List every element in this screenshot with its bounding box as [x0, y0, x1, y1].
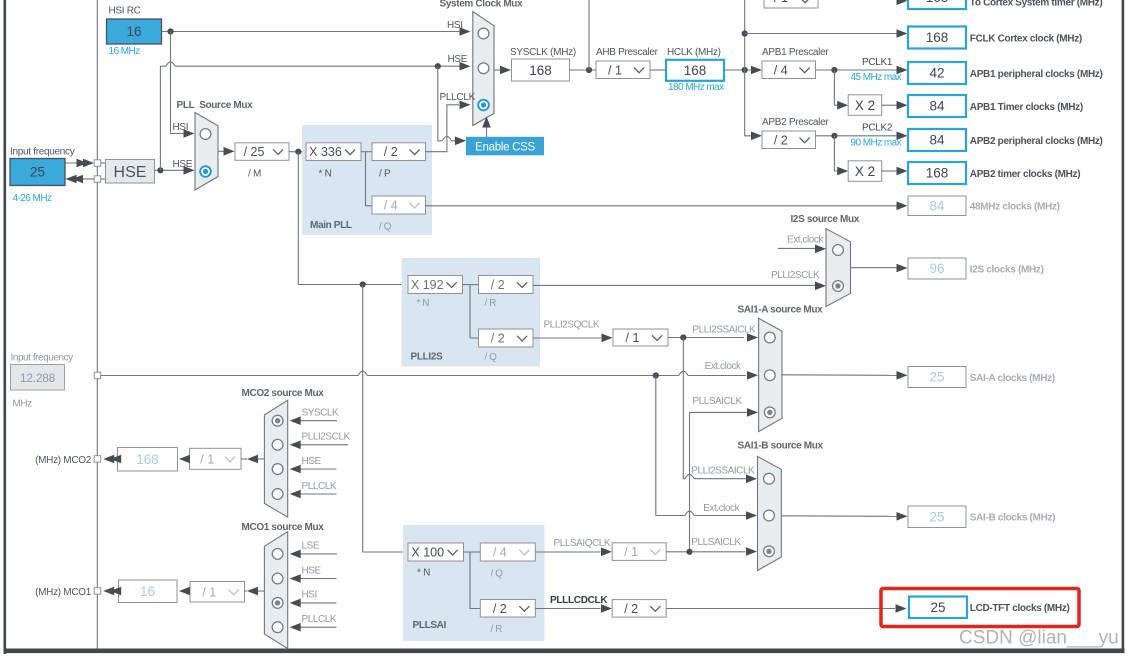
svg-text:168: 168 — [684, 63, 707, 78]
value 48MHz clocks — [908, 196, 966, 216]
frame borders — [4, 0, 7, 654]
svg-text:84: 84 — [929, 133, 945, 148]
svg-text:/ 2: / 2 — [491, 278, 505, 292]
svg-text:X 336: X 336 — [309, 145, 342, 159]
divider PLLSAI /Q — [480, 543, 535, 561]
svg-text:LCD-TFT clocks (MHz): LCD-TFT clocks (MHz) — [970, 603, 1070, 614]
svg-text:/ 1: / 1 — [200, 452, 214, 466]
svg-text:12.288: 12.288 — [20, 371, 56, 385]
svg-text:16 MHz: 16 MHz — [109, 46, 141, 57]
block PLLI2S — [402, 258, 541, 367]
svg-text:PLLI2SCLK: PLLI2SCLK — [771, 270, 820, 281]
svg-text:PLLLCDCLK: PLLLCDCLK — [550, 595, 608, 606]
svg-text:MCO1 source Mux: MCO1 source Mux — [242, 522, 325, 533]
wire LCD-TFT clocks output — [666, 608, 895, 610]
wire PLLI2SQCLK — [533, 337, 601, 339]
value To Cortex System timer (cut) — [908, 0, 966, 9]
svg-text:(MHz) MCO2: (MHz) MCO2 — [35, 455, 92, 466]
svg-text:Input frequency: Input frequency — [11, 353, 74, 364]
svg-text:SAI1-A source Mux: SAI1-A source Mux — [738, 305, 824, 316]
svg-text:/ 1: / 1 — [608, 63, 622, 77]
svg-text:X 100: X 100 — [411, 546, 444, 560]
svg-text:HSE: HSE — [448, 54, 468, 65]
wire input to HSE pin — [65, 162, 82, 164]
highlight LCD-TFT red box — [881, 589, 1079, 627]
svg-text:PLLCLK: PLLCLK — [302, 614, 337, 625]
divider /Q — [372, 196, 426, 214]
svg-text:CSDN @lian___yu: CSDN @lian___yu — [959, 628, 1119, 649]
svg-text:PLLI2SSAICLK: PLLI2SSAICLK — [691, 466, 755, 477]
svg-text:HSE: HSE — [302, 456, 322, 467]
svg-text:PLLSAIQCLK: PLLSAIQCLK — [554, 538, 611, 549]
svg-text:X 2: X 2 — [855, 98, 875, 113]
wire PLLSAIQCLK — [535, 551, 600, 553]
svg-text:Enable CSS: Enable CSS — [475, 141, 535, 153]
wire SAI-B clocks output — [781, 515, 896, 518]
svg-text:HSI: HSI — [302, 590, 317, 601]
svg-text:PLLI2SQCLK: PLLI2SQCLK — [544, 320, 600, 331]
svg-text:* N: * N — [319, 169, 332, 180]
svg-text:/ M: / M — [248, 169, 261, 180]
svg-text:SAI-A clocks (MHz): SAI-A clocks (MHz) — [970, 373, 1055, 384]
svg-text:42: 42 — [929, 66, 944, 81]
svg-text:HCLK (MHz): HCLK (MHz) — [667, 47, 721, 58]
wire HSE up to System Clock Mux — [160, 66, 166, 170]
svg-text:HSE: HSE — [173, 159, 193, 170]
svg-text:* N: * N — [417, 298, 430, 309]
multiplier *N — [306, 143, 361, 161]
wire MCO2 output — [258, 458, 265, 460]
svg-text:System Clock Mux: System Clock Mux — [440, 0, 524, 10]
divider PLLSAI /R — [480, 600, 535, 618]
svg-text:/ R: / R — [485, 298, 497, 309]
block PLLSAI — [403, 525, 545, 641]
svg-text:APB2 Prescaler: APB2 Prescaler — [762, 117, 829, 128]
value I2S clocks — [908, 258, 966, 279]
svg-text:/ P: / P — [379, 169, 391, 180]
svg-text:PCLK2: PCLK2 — [862, 123, 893, 134]
divider MCO2 div — [190, 448, 242, 469]
wire HSI down to PLL Source Mux — [171, 32, 185, 134]
svg-text:96: 96 — [929, 261, 944, 276]
svg-text:/ 2: / 2 — [774, 133, 788, 147]
svg-text:Main PLL: Main PLL — [310, 220, 352, 231]
svg-text:/ Q: / Q — [379, 222, 392, 233]
svg-text:/ Q: / Q — [491, 569, 504, 580]
divider PLLI2S /R — [479, 276, 534, 294]
wire PLLCLK P output to System Clock Mux — [426, 105, 460, 152]
button Enable CSS — [466, 137, 544, 156]
svg-text:APB2 peripheral clocks (MHz): APB2 peripheral clocks (MHz) — [970, 136, 1103, 147]
divider /P — [372, 143, 426, 161]
svg-text:168: 168 — [926, 30, 949, 45]
wire Ext.clock down to SAI1-B — [656, 376, 685, 516]
svg-text:25: 25 — [930, 600, 945, 615]
oscillator HSE — [106, 160, 155, 184]
svg-text:I2S source Mux: I2S source Mux — [791, 214, 860, 225]
svg-text:PLLSAI: PLLSAI — [413, 620, 447, 631]
svg-text:PLLI2SCLK: PLLI2SCLK — [302, 432, 351, 443]
svg-text:25: 25 — [929, 509, 944, 524]
svg-text:168: 168 — [136, 452, 159, 467]
svg-text:4-26 MHz: 4-26 MHz — [13, 193, 52, 204]
multiplier PLLI2S *N — [408, 276, 463, 294]
svg-text:APB1 Prescaler: APB1 Prescaler — [762, 47, 829, 58]
value LCD-TFT clocks — [909, 597, 967, 619]
wire PLL input rail down to PLLI2S and PLLSAI — [298, 152, 408, 285]
value APB2 timer clocks — [908, 162, 966, 184]
wire: left input rail — [96, 0, 98, 649]
svg-text:X 2: X 2 — [855, 164, 875, 179]
svg-text:/ 2: / 2 — [624, 602, 638, 616]
wire PLLSAICLK to SAI1-B — [666, 551, 745, 553]
svg-text:SAI-B clocks (MHz): SAI-B clocks (MHz) — [970, 513, 1055, 524]
svg-text:/ 2: / 2 — [493, 602, 507, 616]
wire HSE pin back to input — [79, 178, 94, 180]
wire APB2 to X2 — [834, 136, 843, 171]
value APB1 Timer clocks — [908, 95, 966, 117]
svg-text:SYSCLK: SYSCLK — [302, 408, 340, 419]
wire HCLK to APB — [724, 69, 751, 71]
wire SYSCLK output — [494, 69, 500, 71]
divider Cortex prescaler (cut at top) — [764, 0, 818, 8]
svg-text:PLL Source Mux: PLL Source Mux — [177, 100, 254, 111]
svg-text:/ 1: / 1 — [202, 585, 216, 599]
svg-text:16: 16 — [126, 24, 141, 39]
value FCLK Cortex clock — [908, 27, 966, 49]
wire PLLI2SSAICLK down to SAI1-B — [683, 338, 685, 479]
wire PLL mux output to /M — [218, 150, 224, 152]
svg-text:APB2 timer clocks (MHz): APB2 timer clocks (MHz) — [970, 169, 1080, 180]
svg-text:MHz: MHz — [13, 399, 33, 410]
wire I2S clocks output — [851, 267, 897, 269]
multiplier PLLSAI *N — [408, 543, 464, 561]
svg-text:HSE: HSE — [114, 164, 147, 181]
wire HSE to Enable CSS — [438, 66, 443, 141]
svg-text:PLLCLK: PLLCLK — [302, 481, 337, 492]
svg-text:HSI RC: HSI RC — [109, 6, 141, 17]
divider PLLI2S /Q — [479, 329, 534, 347]
svg-text:LSE: LSE — [302, 541, 320, 552]
wire HSI to System Clock Mux — [162, 31, 461, 33]
wire SAI-A clocks output — [782, 374, 897, 377]
svg-text:HSI: HSI — [447, 20, 463, 31]
svg-text:HSE: HSE — [302, 565, 322, 576]
svg-text:84: 84 — [929, 99, 945, 114]
svg-text:/ 4: / 4 — [384, 199, 398, 213]
svg-text:/ 4: / 4 — [774, 63, 788, 77]
svg-text:APB1 peripheral clocks (MHz): APB1 peripheral clocks (MHz) — [970, 69, 1103, 80]
svg-text:168: 168 — [926, 0, 949, 5]
svg-text:FCLK Cortex clock (MHz): FCLK Cortex clock (MHz) — [970, 33, 1082, 44]
divider PLLSAI div Q — [612, 543, 666, 561]
wire N to P and Q — [361, 151, 372, 153]
svg-text:APB1 Timer clocks (MHz): APB1 Timer clocks (MHz) — [970, 102, 1083, 113]
svg-text:PCLK1: PCLK1 — [862, 57, 893, 68]
svg-text:Input frequency: Input frequency — [10, 147, 75, 158]
divider MCO1 div — [190, 582, 245, 603]
svg-text:AHB Prescaler: AHB Prescaler — [596, 47, 659, 58]
svg-text:I2S clocks (MHz): I2S clocks (MHz) — [970, 264, 1044, 275]
svg-text:Ext.clock: Ext.clock — [703, 503, 740, 514]
svg-text:16: 16 — [140, 584, 155, 599]
svg-text:* N: * N — [417, 568, 430, 579]
svg-text:/ 2: / 2 — [491, 332, 505, 346]
svg-text:/ 4: / 4 — [493, 546, 507, 560]
svg-text:X 192: X 192 — [411, 278, 444, 292]
multiplier X2 APB1 timers — [848, 95, 882, 116]
svg-text:45 MHz max: 45 MHz max — [851, 72, 902, 83]
svg-text:PLLSAICLK: PLLSAICLK — [691, 537, 741, 548]
svg-text:SYSCLK (MHz): SYSCLK (MHz) — [510, 47, 576, 58]
node I2S_CKIN pin — [94, 372, 101, 379]
divider LCD-TFT div — [612, 600, 666, 618]
value APB1 peripheral clocks — [908, 62, 966, 84]
wire PLLI2SSAICLK to SAI1-A — [668, 337, 744, 339]
svg-text:PLLSAICLK: PLLSAICLK — [692, 396, 742, 407]
svg-text:180 MHz max: 180 MHz max — [668, 82, 724, 93]
svg-text:90 MHz max: 90 MHz max — [851, 138, 902, 149]
svg-text:48MHz clocks (MHz): 48MHz clocks (MHz) — [970, 202, 1060, 213]
svg-text:168: 168 — [926, 166, 949, 181]
svg-text:/ Q: / Q — [485, 352, 498, 363]
svg-text:/ 1: / 1 — [626, 331, 640, 345]
svg-text:/ R: / R — [491, 624, 503, 635]
svg-text:PLLI2S: PLLI2S — [411, 352, 443, 363]
svg-text:PLLI2SSAICLK: PLLI2SSAICLK — [692, 324, 756, 335]
wire MCO1 output — [258, 590, 265, 592]
wire APB1 to X2 — [834, 70, 843, 105]
svg-text:SAI1-B source Mux: SAI1-B source Mux — [738, 441, 824, 452]
svg-text:25: 25 — [30, 165, 45, 180]
svg-text:84: 84 — [929, 198, 945, 213]
value SAI-A clocks — [908, 367, 966, 388]
wire Q output 48MHz clocks — [426, 205, 897, 207]
svg-text:HSI: HSI — [173, 122, 189, 133]
block Main PLL — [302, 125, 432, 235]
divider /M — [235, 143, 289, 161]
wire PLLI2SCLK R output to I2S mux — [533, 284, 815, 286]
wire HCLK down to APB2 — [745, 70, 751, 136]
value MCO2 — [118, 448, 178, 472]
svg-text:25: 25 — [929, 370, 944, 385]
value SAI-B clocks — [908, 506, 966, 528]
wire FCLK — [742, 30, 748, 36]
wire Ext.clock line — [101, 375, 358, 377]
svg-text:168: 168 — [529, 63, 552, 78]
multiplier X2 APB2 timers — [848, 161, 882, 182]
divider PLLI2S div Q — [613, 329, 668, 346]
wire HSE output — [155, 169, 185, 171]
svg-text:/ 1: / 1 — [774, 0, 788, 5]
value APB2 peripheral clocks — [908, 129, 966, 151]
value MCO1 — [119, 580, 178, 603]
svg-text:Ext.clock: Ext.clock — [705, 361, 742, 372]
wire SYSCLK up — [588, 0, 590, 70]
svg-text:(MHz) MCO1: (MHz) MCO1 — [35, 587, 92, 598]
svg-text:/ 2: / 2 — [384, 145, 398, 159]
svg-text:PLLCLK: PLLCLK — [440, 92, 476, 103]
svg-text:To Cortex System timer (MHz): To Cortex System timer (MHz) — [970, 0, 1103, 9]
svg-text:/ 25: / 25 — [244, 145, 265, 159]
wire PLLLCDCLK — [535, 608, 600, 610]
svg-text:MCO2 source Mux: MCO2 source Mux — [242, 388, 325, 399]
svg-text:/ 1: / 1 — [624, 545, 638, 559]
svg-text:Ext.clock: Ext.clock — [787, 235, 824, 246]
